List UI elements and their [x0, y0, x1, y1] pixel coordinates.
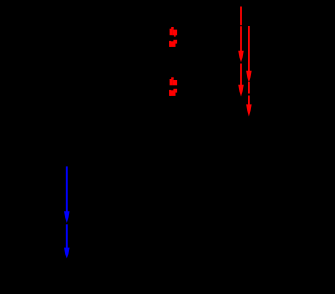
red force arrow A1 (left line, upper segment) — [238, 7, 244, 63]
blue weight arrow W2 (lower segment) — [64, 224, 70, 258]
red force arrow B1 (right line, upper segment) — [246, 26, 252, 83]
force label F3 (red, lower pair top) — [170, 77, 177, 85]
blue weight arrow W1 (upper segment) — [64, 166, 70, 223]
force label F4 (red, lower pair bottom) — [169, 89, 177, 96]
red force arrow B2 (right line, lower segment) — [246, 82, 252, 117]
force label F2 (red, upper pair bottom) — [169, 40, 177, 47]
force label F1 (red, upper pair top) — [170, 27, 177, 37]
red force arrow A2 (left line, lower segment) — [238, 64, 244, 97]
